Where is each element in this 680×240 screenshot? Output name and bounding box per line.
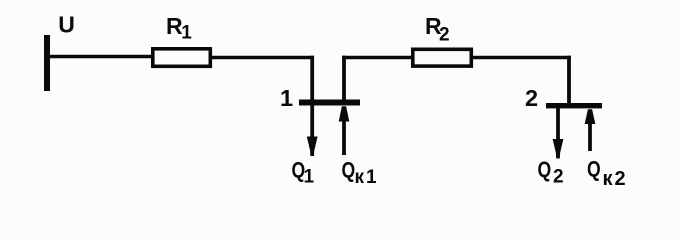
svg-text:2: 2 (553, 167, 564, 188)
load arrow Q2 head (553, 139, 564, 159)
wire down from corner to bus 2 (567, 56, 571, 104)
load arrow Q1 head (307, 137, 318, 157)
infeed arrow Qk1 line (342, 112, 346, 155)
svg-text:2: 2 (439, 24, 450, 45)
wire down from corner to bus 1 (310, 56, 314, 104)
svg-text:1: 1 (304, 167, 315, 188)
svg-text:Q: Q (538, 158, 552, 182)
svg-text:1: 1 (181, 23, 192, 44)
infeed arrow Qk2 line (588, 115, 592, 151)
wire R2 to corner above bus 2 (471, 56, 571, 60)
wire source to R1 (50, 55, 153, 59)
svg-text:к2: к2 (603, 168, 628, 190)
source terminal bar (44, 35, 50, 91)
infeed arrow Qk2 head (585, 109, 596, 124)
resistor R1 (153, 49, 211, 67)
load arrow Q2 line (556, 108, 560, 142)
load arrow Q1 line (310, 105, 314, 140)
resistor R2 (413, 49, 472, 66)
wire bus 1 up to R2 level (342, 56, 346, 100)
bus 1 bar (299, 100, 360, 106)
svg-text:2: 2 (525, 85, 538, 111)
infeed arrow Qk1 head (339, 106, 350, 121)
svg-text:к1: к1 (355, 167, 379, 188)
bus 2 bar (546, 103, 602, 108)
svg-text:U: U (58, 12, 75, 38)
svg-text:1: 1 (280, 85, 293, 111)
wire corner to R2 (342, 56, 413, 60)
svg-text:Q: Q (587, 158, 601, 182)
svg-text:Q: Q (342, 159, 356, 183)
wire R1 to corner above bus 1 (211, 56, 314, 60)
